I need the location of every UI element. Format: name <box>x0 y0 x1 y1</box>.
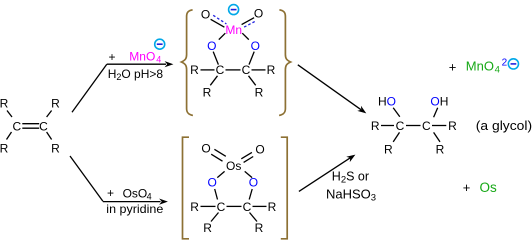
bond R left to C left <box>201 69 215 71</box>
bond ring O left to C left <box>215 189 218 200</box>
svg-text:R: R <box>190 63 199 77</box>
svg-text:R: R <box>267 63 276 77</box>
bond Os to ring O right <box>245 171 252 177</box>
svg-text:R: R <box>203 85 212 99</box>
bond C left to R bottom-left <box>211 213 219 222</box>
svg-text:O: O <box>201 7 210 21</box>
bond ring O left to C left <box>213 52 218 65</box>
svg-text:R: R <box>268 200 277 214</box>
bond C left to R top-left <box>7 111 12 118</box>
double bond Mn=O left (sigma black, pi blue dashed) <box>211 19 225 27</box>
svg-text:+: + <box>108 50 115 64</box>
svg-text:O: O <box>208 176 217 190</box>
svg-text:O: O <box>254 7 263 21</box>
bond C left to R bottom-left <box>393 132 399 142</box>
svg-text:O: O <box>207 39 216 53</box>
bond ring O right to C right <box>249 189 252 200</box>
svg-text:C: C <box>243 200 252 214</box>
svg-text:OsO: OsO <box>123 186 148 200</box>
svg-text:R: R <box>190 200 199 214</box>
svg-text:Os: Os <box>226 159 241 173</box>
svg-text:R: R <box>255 221 264 235</box>
svg-text:R: R <box>0 97 9 111</box>
bond C left to R bottom-left <box>7 132 12 140</box>
svg-text:R: R <box>371 119 380 133</box>
svg-text:R: R <box>384 143 393 157</box>
svg-text:HO: HO <box>378 95 396 109</box>
bond ring O right to C right <box>249 52 254 65</box>
svg-text:C: C <box>39 119 48 133</box>
svg-text:2: 2 <box>502 58 508 69</box>
bond O to C left <box>393 108 400 117</box>
bond C left to R bottom-left <box>210 76 217 86</box>
charge circled minus above Mn <box>229 5 239 15</box>
bond C right to R right <box>432 125 446 127</box>
svg-text:4: 4 <box>147 192 152 202</box>
svg-text:4: 4 <box>156 54 161 64</box>
svg-text:R: R <box>436 143 445 157</box>
double bond Os=O right <box>241 152 252 158</box>
double bond Mn=O right (sigma black, pi blue dashed) <box>242 18 255 25</box>
arrow reaction 1 (to Mn ester) <box>107 63 166 65</box>
svg-text:OH: OH <box>430 95 448 109</box>
svg-text:+: + <box>449 60 457 75</box>
arrow from Os ester to glycol (H2S workup) <box>299 158 351 192</box>
svg-text:H2S or: H2S or <box>332 170 369 186</box>
bracket right of Os ester <box>281 137 287 239</box>
svg-text:R: R <box>203 221 212 235</box>
svg-text:+: + <box>107 186 114 200</box>
svg-text:Os: Os <box>480 180 498 195</box>
svg-text:(a glycol): (a glycol) <box>476 118 532 133</box>
bracket left of Os ester <box>183 137 190 239</box>
svg-text:MnO: MnO <box>466 59 494 74</box>
bond R left to C left <box>201 205 216 207</box>
bond C right to R right <box>252 69 266 71</box>
svg-text:C: C <box>12 119 21 133</box>
arrow reaction 2 (to Os ester) <box>103 201 161 203</box>
svg-text:C: C <box>242 63 251 77</box>
bond Mn to ring O left <box>219 33 226 39</box>
svg-text:Mn: Mn <box>225 23 242 37</box>
bond C right to R right <box>253 205 267 207</box>
bond C-C <box>227 205 242 207</box>
bond C right to R top-right <box>47 111 52 118</box>
svg-text:O: O <box>249 176 258 190</box>
bond C=C double bond <box>22 123 39 125</box>
svg-text:4: 4 <box>495 65 500 76</box>
bond C right to R bottom-right <box>47 132 52 140</box>
svg-text:O: O <box>251 39 260 53</box>
svg-text:H2O pH>8: H2O pH>8 <box>108 67 164 82</box>
svg-text:R: R <box>448 119 457 133</box>
bond O to C right <box>434 108 438 118</box>
svg-text:MnO: MnO <box>129 50 155 64</box>
svg-text:NaHSO3: NaHSO3 <box>326 187 376 204</box>
bond C right to R bottom-right <box>434 132 440 142</box>
svg-text:C: C <box>396 119 405 133</box>
bond C right to R bottom-right <box>250 213 258 222</box>
svg-text:R: R <box>51 142 60 156</box>
charge circled minus on MnO4 2- <box>508 59 518 69</box>
bond Mn to ring O right <box>242 33 249 39</box>
bond C right to R bottom-right <box>249 76 256 86</box>
svg-text:R: R <box>255 85 264 99</box>
wire: bottom fork line to reaction 2 arrow <box>70 156 103 201</box>
svg-text:+: + <box>463 180 471 195</box>
svg-text:C: C <box>217 200 226 214</box>
svg-text:C: C <box>216 63 225 77</box>
bond C-C <box>226 69 241 71</box>
brace left of Mn ester <box>181 10 193 116</box>
charge circled minus on MnO4 <box>155 39 165 49</box>
svg-text:R: R <box>51 97 60 111</box>
bond C-C <box>406 125 421 127</box>
bond Os to ring O left <box>217 171 224 177</box>
svg-text:C: C <box>422 119 431 133</box>
bond R left to C left <box>381 125 394 127</box>
svg-text:O: O <box>255 143 264 157</box>
brace right of Mn ester <box>279 10 291 116</box>
double bond Os=O left <box>214 149 225 156</box>
svg-text:O: O <box>201 141 210 155</box>
wire: top fork line to reaction 1 arrow <box>72 64 107 112</box>
svg-text:R: R <box>0 142 9 156</box>
svg-text:in pyridine: in pyridine <box>106 202 163 216</box>
arrow from Mn ester to glycol <box>298 65 361 110</box>
